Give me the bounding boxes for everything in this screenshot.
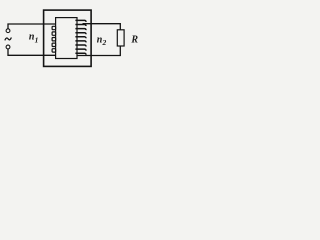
input terminal top bbox=[6, 29, 10, 33]
secondary winding n2 coil turns bbox=[75, 20, 86, 54]
wire from top input terminal to primary bbox=[8, 24, 56, 29]
wire from secondary to resistor top bbox=[83, 24, 121, 30]
wire from bottom input terminal to primary bbox=[8, 49, 56, 55]
wire from resistor bottom to secondary bbox=[77, 46, 120, 56]
label n1 bbox=[29, 32, 38, 45]
label n2 bbox=[97, 35, 107, 47]
AC tilde symbol bbox=[5, 38, 12, 41]
input terminal bottom bbox=[6, 45, 10, 49]
transformer core outer box bbox=[44, 10, 92, 66]
svg-text:2: 2 bbox=[102, 38, 107, 47]
resistor R bbox=[117, 30, 124, 46]
svg-text:1: 1 bbox=[35, 35, 39, 44]
transformer core inner window bbox=[56, 18, 77, 59]
svg-text:R: R bbox=[130, 34, 138, 45]
primary winding n1 coil loops bbox=[52, 26, 56, 52]
